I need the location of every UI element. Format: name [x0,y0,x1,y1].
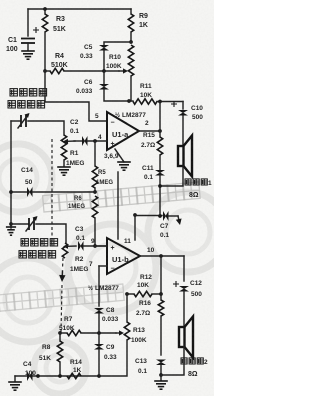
pin 9 wire [95,245,107,247]
resistor R11 10K [129,100,133,102]
capacitor C10 500 [182,102,184,110]
wire top rail [28,8,131,10]
speaker 1 [178,146,184,166]
wire R4-node down to pin 5 [45,71,107,121]
ground below C1 [21,50,35,52]
node R5/R6/C14 [93,190,97,194]
resistor R15 2.7 ohm [159,131,161,137]
op-amp U1-a (1/2 LM2877) [107,112,139,150]
resistor R3 51K [44,9,46,14]
capacitor C2 0.1 [74,140,82,142]
potentiometer R1 1MEG [61,135,66,160]
pin 11 / ground stubs [117,172,119,239]
ground pins 3,6,9 [115,149,124,162]
capacitor C5 0.33 [99,45,109,48]
potentiometer R10 100K [128,45,133,76]
node R10/C6/R11 [127,99,131,103]
resistor R14 1K [67,373,81,378]
capacitor C13 0.1 [156,360,166,363]
stereo ceramic pickup 1 label [10,89,17,96]
ground bottom left [14,376,16,381]
R2 bottom gang link to R7/R8 node [62,258,65,269]
pickup 2 [11,223,28,225]
resistor R12 10K [160,256,162,294]
resistor R9 1K [130,9,132,14]
capacitor C4 100 [27,371,30,381]
node C5/C6/R4 [102,69,106,73]
capacitor C9 0.33 [98,333,100,344]
wiper arrow into R10 [119,70,123,72]
capacitor C1 [27,9,29,36]
capacitor C12 500 [183,256,185,281]
node R9/R10/C5 [129,40,133,44]
capacitor C3 0.1 [78,241,81,251]
wiper arrow R1 [68,140,75,142]
resistor R4 510K [50,68,64,73]
capacitor C11 0.1 [159,155,161,170]
wire C5 branch top [104,42,131,45]
ground below C13 [160,375,162,380]
ground rail left [10,121,12,228]
op-amp U1-b (1/2 LM2877) [107,238,140,274]
resistor R16 2.7 ohm [158,300,163,316]
potentiometer R2 1MEG [62,243,67,258]
resistor R8 51K [59,333,61,341]
potentiometer R13 100K [126,294,128,322]
capacitor C8 0.033 [98,266,100,306]
stereo ceramic pickup 2 label [21,239,28,246]
pickup 1 [11,120,20,122]
node: R3/R4/pin5 junction [43,69,47,73]
capacitor C7 0.1 [133,213,137,217]
resistor R6 1MEG [92,196,97,218]
pin 7 wire [99,265,107,267]
resistor R7 510K [58,331,62,335]
node output riser top [158,100,162,104]
resistor R5 1MEG [94,141,96,166]
wire op-amp output pin 2 [139,130,160,132]
wire op-amp output pin 10 [140,255,184,257]
wiper arrow R2 [68,245,76,247]
dashed gang link volume pots [51,139,53,246]
capacitor C14 50 [11,191,27,193]
speaker 2 [179,327,185,347]
wiper arrow into R13 [116,332,119,334]
capacitor C6 0.033 [103,71,105,84]
